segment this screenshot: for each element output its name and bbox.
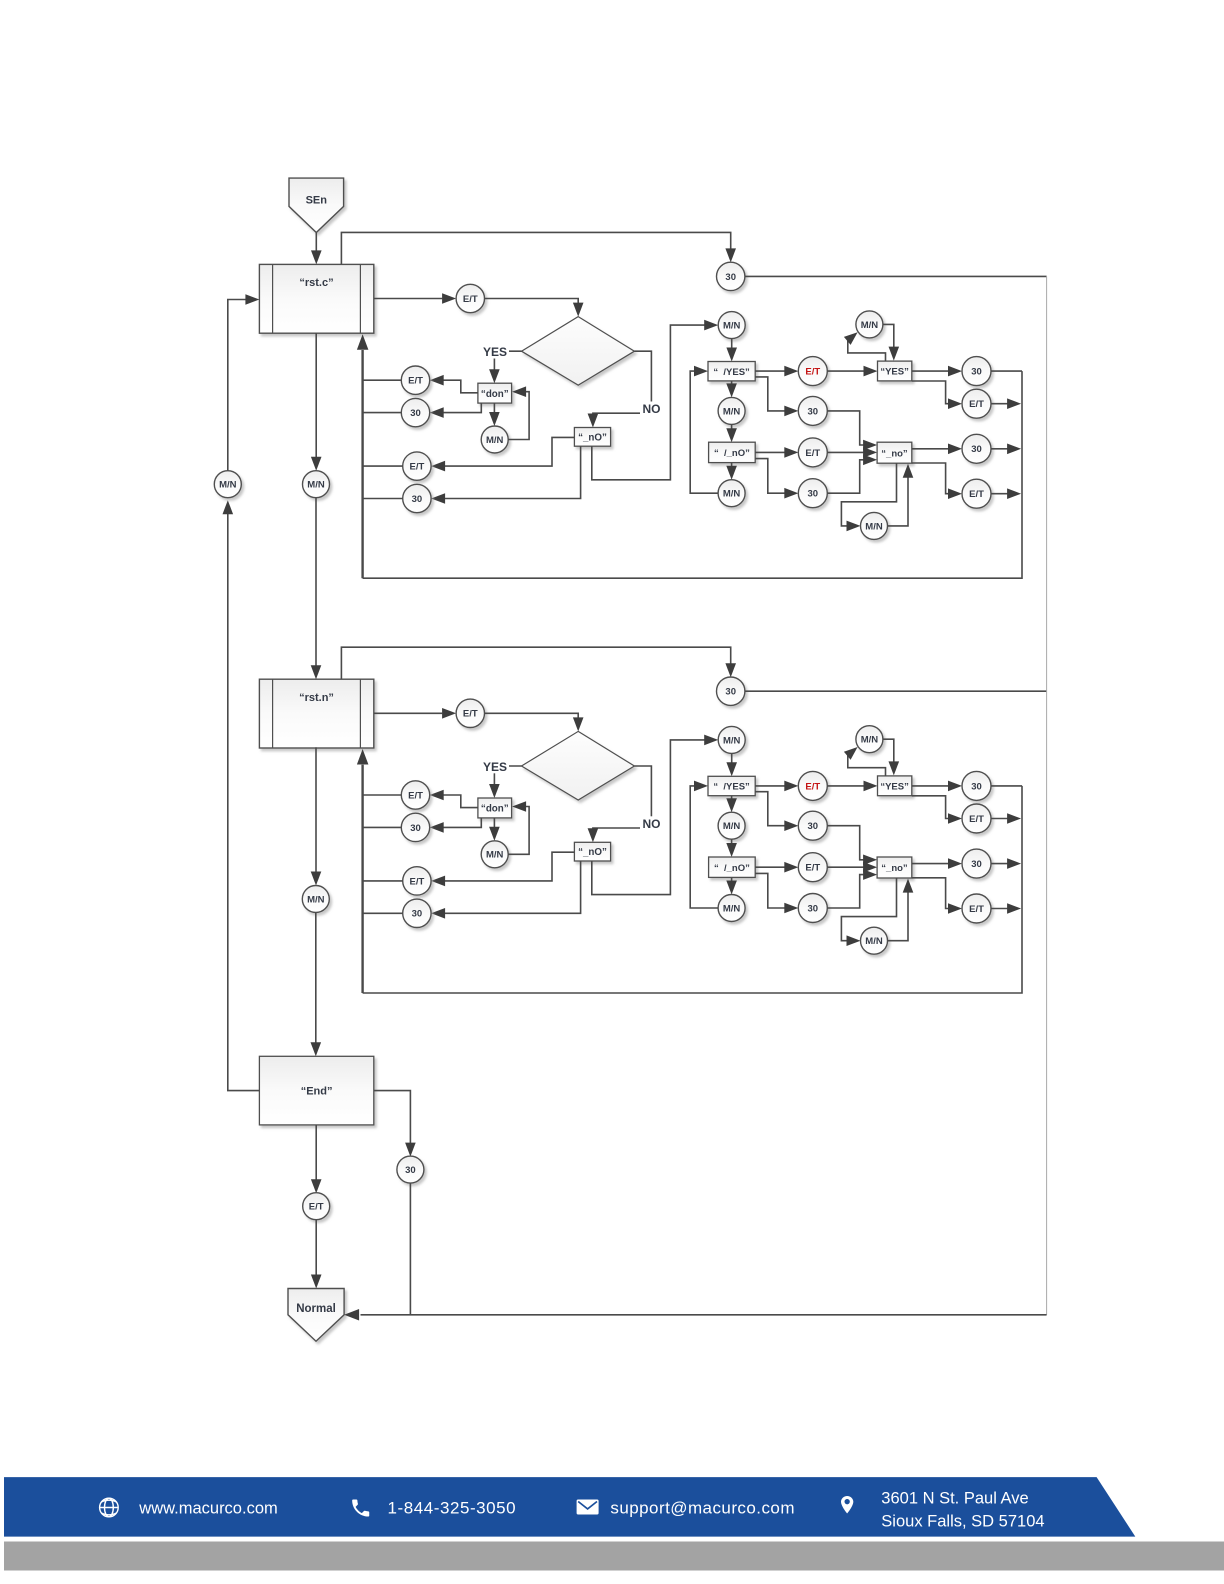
node 30 r2 s1 (962, 434, 991, 463)
wire s1 _nO to M/N-a (592, 320, 718, 480)
node 30 l2 s2 (403, 899, 431, 927)
wire 30-e down (409, 1183, 411, 1315)
node 30 b s2 (798, 894, 827, 923)
icon globe (100, 1498, 119, 1517)
wire s1 E/T-mr to _no (827, 447, 877, 458)
node 30 top s2 (717, 677, 745, 705)
node E/T out s2 (456, 699, 484, 727)
node M/N tr s2 (856, 726, 883, 753)
wire s2 _nO to M/N-a (592, 735, 718, 895)
icon phone (352, 1499, 369, 1516)
svg-text:30: 30 (808, 489, 819, 500)
svg-text:NO: NO (643, 402, 661, 416)
wire s1 /_nO to 30-b (755, 459, 798, 499)
wire s1 M/N-tr to YES-box (883, 324, 899, 360)
label YES s2 (481, 759, 509, 774)
icon location pin (841, 1496, 853, 1514)
wire s1 rst-top to 30 (341, 232, 736, 264)
footer text email (610, 1499, 795, 1518)
wire s2 YES-box to 30-r1 (912, 781, 962, 792)
node M/N m s2 (718, 812, 745, 839)
wire s2 30-l2 stub (363, 912, 403, 914)
wire s2 30-b to _no (827, 869, 877, 908)
svg-text:M/N: M/N (723, 489, 741, 500)
wire s1 30-r2 out (991, 444, 1021, 455)
wire s2 E/T-l1 stub (363, 794, 402, 796)
svg-text:30: 30 (808, 406, 819, 417)
wire s2 M/N-a to /YES (726, 753, 737, 776)
svg-text:“ /YES”: “ /YES” (713, 367, 750, 378)
svg-text:M/N: M/N (723, 903, 741, 914)
svg-text:“ /_nO”: “ /_nO” (714, 863, 750, 874)
wire s2 _no to 30-r2 (912, 858, 962, 869)
display don s1 (478, 383, 512, 403)
decision diamond s2 (522, 731, 635, 800)
svg-text:3601 N St. Paul Ave: 3601 N St. Paul Ave (881, 1490, 1028, 1508)
wire s1 _nO to 30-l2 (431, 446, 580, 504)
wire s2 collector rail (363, 786, 1022, 993)
svg-text:YES: YES (483, 345, 507, 359)
wire right rail down (1046, 276, 1048, 1314)
svg-text:E/T: E/T (969, 489, 984, 500)
wire s1 E/T-r1 out (991, 398, 1021, 409)
wire rst.n down to M/N-v2 (311, 747, 322, 885)
node 30 r1 s2 (962, 771, 991, 800)
wire s1 E/T to decision (485, 299, 584, 317)
node M/N tr s1 (856, 311, 883, 338)
wire s2 M/N-tr to YES-box (883, 739, 899, 775)
svg-text:“rst.c”: “rst.c” (299, 277, 333, 289)
connector SEn (289, 178, 344, 232)
svg-text:E/T: E/T (969, 904, 984, 915)
svg-text:E/T: E/T (463, 294, 478, 305)
svg-text:E/T: E/T (969, 814, 984, 825)
wire s1 /YES to M/N-m (726, 381, 737, 398)
wire s1 YES-box to 30-r1 (912, 366, 962, 377)
wire s1 30-l2 stub (363, 498, 403, 500)
connector Normal (288, 1289, 344, 1342)
footer text website (138, 1500, 277, 1518)
node M/N left (214, 471, 241, 498)
svg-text:M/N: M/N (723, 321, 741, 332)
svg-text:NO: NO (643, 817, 661, 831)
footer blue banner (4, 1477, 1135, 1537)
wire s1 30-r1 out (991, 370, 1022, 372)
wire s2 M/N-m to /_nO (726, 839, 737, 857)
svg-text:30: 30 (971, 367, 982, 378)
wire s2 rst to E/T (374, 708, 456, 719)
wire s2 NO branch (588, 766, 652, 842)
wire M/N-v1 down to rst.n (311, 498, 322, 680)
svg-text:E/T: E/T (410, 462, 425, 473)
node M/N br s2 (861, 927, 888, 954)
node E/T mr s2 (798, 853, 827, 882)
wire s2 feedback to rst bottom (357, 749, 369, 993)
display _nO s2 (574, 842, 610, 861)
node 30 top s1 (717, 262, 745, 290)
svg-text:E/T: E/T (805, 863, 820, 874)
svg-text:M/N: M/N (861, 320, 879, 331)
node E/T l1 s1 (401, 366, 429, 394)
svg-text:“End”: “End” (301, 1086, 333, 1098)
wire s1 YES-box to E/T-r1 (912, 381, 962, 409)
svg-text:30: 30 (410, 823, 421, 834)
svg-text:support@macurco.com: support@macurco.com (610, 1499, 795, 1518)
display /YES s2 (708, 776, 755, 795)
wire s1 M/N-m to /_nO (726, 424, 737, 442)
node E/T mr s1 (798, 438, 827, 467)
wire s2 /_nO to E/T-mr (755, 862, 798, 873)
node E/T r1 s1 (962, 389, 991, 418)
svg-text:30: 30 (412, 909, 423, 920)
display /_nO s2 (709, 857, 756, 877)
node M/N v1 (303, 471, 330, 498)
display _no s1 (877, 442, 912, 463)
svg-text:M/N: M/N (723, 821, 741, 832)
wire s1 _no to 30-r2 (912, 444, 962, 455)
wire s2 /YES to E/T-red (755, 781, 798, 792)
svg-text:M/N: M/N (723, 406, 741, 417)
node E/T r1 s2 (962, 804, 991, 833)
wire s1 YES-box to M/N-tr (844, 332, 886, 361)
svg-text:E/T: E/T (309, 1202, 324, 1213)
svg-text:E/T: E/T (410, 876, 425, 887)
svg-text:“YES”: “YES” (880, 367, 909, 378)
svg-text:“rst.n”: “rst.n” (299, 692, 334, 704)
icon envelope (577, 1500, 599, 1515)
wire s1 30-b to _no (827, 455, 877, 494)
label YES s1 (481, 345, 509, 360)
svg-text:30: 30 (808, 821, 819, 832)
wire s2 30-top to right rail (745, 690, 1047, 692)
svg-text:30: 30 (808, 903, 819, 914)
svg-text:E/T: E/T (408, 790, 423, 801)
wire s2 /YES to M/N-m (726, 796, 737, 813)
node M/N m s1 (718, 397, 745, 424)
node M/N br s1 (861, 512, 888, 539)
svg-text:30: 30 (412, 494, 423, 505)
node 30 e (397, 1156, 424, 1183)
wire s2 E/T-mr to _no (827, 862, 877, 873)
wire End to 30-e (374, 1091, 416, 1157)
svg-text:30: 30 (725, 272, 736, 283)
label NO s2 (640, 816, 663, 831)
wire s2 /_nO to M/N-b (726, 877, 737, 894)
svg-text:M/N: M/N (865, 936, 883, 947)
wire s2 YES-box to E/T-r1 (912, 796, 962, 824)
decision diamond s1 (522, 317, 635, 386)
wire s2 YES-box to M/N-tr (844, 747, 886, 776)
wire s2 30-r1 out (991, 785, 1022, 787)
svg-text:M/N: M/N (723, 735, 741, 746)
svg-text:M/N: M/N (865, 521, 883, 532)
svg-text:M/N: M/N (486, 850, 504, 861)
wire s2 M/N to don (508, 801, 529, 854)
svg-text:www.macurco.com: www.macurco.com (138, 1500, 277, 1518)
wire s2 don to 30-l1 (430, 818, 482, 833)
svg-text:30: 30 (725, 687, 736, 698)
wire s2 don to M/N (489, 818, 500, 841)
wire s1 collector rail (363, 371, 1022, 578)
wire s1 M/N-br to _no (888, 464, 914, 526)
svg-text:E/T: E/T (969, 399, 984, 410)
node M/N a s1 (718, 312, 745, 339)
wire s1 E/T-l1 stub (363, 379, 402, 381)
wire s1 M/N-a to /YES (726, 339, 737, 362)
wire rst.c down to M/N-v1 (311, 333, 322, 471)
svg-text:30: 30 (971, 444, 982, 455)
svg-text:M/N: M/N (486, 435, 504, 446)
node M/N under don s2 (481, 841, 508, 868)
svg-text:“_nO”: “_nO” (578, 847, 607, 858)
node E/T red s1 (798, 357, 827, 386)
svg-text:SEn: SEn (306, 195, 328, 207)
svg-text:“_no”: “_no” (881, 863, 908, 874)
wire s1 E/T-l2 stub (363, 465, 403, 467)
display /_nO s1 (709, 442, 756, 462)
display YES-box s1 (878, 361, 912, 381)
svg-text:“ /YES”: “ /YES” (713, 782, 750, 793)
wire s1 don to E/T-l1 (430, 375, 478, 393)
wire s2 30-m to _no (827, 826, 877, 865)
svg-text:30: 30 (410, 408, 421, 419)
wire s1 _nO to E/T-l2 (431, 437, 574, 471)
svg-text:M/N: M/N (307, 480, 325, 491)
node E/T out s1 (456, 284, 484, 312)
svg-text:E/T: E/T (805, 448, 820, 459)
footer text address line2 (881, 1513, 1044, 1531)
wire s1 30-m to _no (827, 411, 877, 450)
wire s2 /YES to 30-m (755, 792, 798, 831)
svg-text:Sioux Falls, SD 57104: Sioux Falls, SD 57104 (881, 1513, 1044, 1531)
svg-text:“don”: “don” (481, 804, 509, 815)
svg-text:E/T: E/T (463, 709, 478, 720)
wire s1 YES branch (489, 351, 521, 383)
wire s2 don to E/T-l1 (430, 790, 478, 808)
wire s1 E/T-red to YES-box (827, 366, 877, 377)
wire s1 E/T-r2 out (991, 488, 1021, 499)
wire s1 NO branch (588, 351, 652, 427)
wire rail to Normal (344, 1309, 1047, 1321)
wire s2 _nO to E/T-l2 (431, 852, 574, 886)
svg-text:M/N: M/N (219, 480, 237, 491)
wire s1 M/N to don (508, 386, 529, 439)
svg-text:“don”: “don” (481, 389, 509, 400)
svg-text:“ /_nO”: “ /_nO” (714, 448, 750, 459)
wire s2 E/T-l2 stub (363, 880, 403, 882)
node M/N a s2 (718, 726, 745, 753)
process &#8220;rst.c&#8221; s1 (259, 264, 373, 333)
wire s1 _no to M/N-br (841, 463, 896, 531)
svg-text:“YES”: “YES” (880, 781, 909, 792)
node M/N b s2 (718, 895, 745, 922)
node 30 l1 s2 (401, 813, 429, 841)
wire M/N-left to rst.c (228, 294, 260, 471)
node E/T r2 s2 (962, 894, 991, 923)
svg-text:“_nO”: “_nO” (578, 433, 607, 444)
wire s2 E/T-r1 out (991, 813, 1021, 824)
node E/T l2 s2 (403, 867, 431, 895)
wire s2 E/T-red to YES-box (827, 781, 877, 792)
wire s2 30-l1 stub (363, 826, 402, 828)
wire End to E/T-e (311, 1125, 322, 1193)
wire s1 feedback to rst bottom (357, 334, 369, 578)
wire s1 /YES to E/T-red (755, 366, 798, 377)
wire s1 M/N-b to /YES (690, 366, 718, 493)
node E/T e (303, 1193, 330, 1220)
svg-text:E/T: E/T (805, 781, 820, 792)
wire s2 E/T to decision (485, 713, 584, 731)
svg-text:YES: YES (483, 760, 507, 774)
wire s1 _no to E/T-r2 (912, 463, 962, 499)
node E/T red s2 (798, 771, 827, 800)
footer gray bar (4, 1542, 1224, 1571)
svg-text:“_no”: “_no” (881, 448, 908, 459)
node 30 m s1 (798, 396, 827, 425)
svg-text:Normal: Normal (296, 1303, 336, 1315)
wire s1 don to 30-l1 (430, 403, 482, 418)
footer text phone (388, 1499, 517, 1518)
process &#8220;rst.n&#8221; s2 (259, 679, 373, 748)
wire E/T-e to Normal (311, 1220, 322, 1289)
display _no s2 (877, 857, 912, 878)
wire s2 /_nO to 30-b (755, 873, 798, 913)
svg-text:30: 30 (971, 781, 982, 792)
svg-text:30: 30 (405, 1165, 416, 1176)
wire s2 YES branch (489, 766, 521, 798)
wire s2 30-r2 out (991, 858, 1021, 869)
wire s2 rst-top to 30 (341, 647, 736, 679)
wire s2 _no to M/N-br (841, 878, 896, 946)
footer text address line1 (881, 1490, 1028, 1508)
svg-text:1-844-325-3050: 1-844-325-3050 (388, 1499, 517, 1518)
wire s2 M/N-b to /YES (690, 781, 718, 908)
wire End left loop (223, 500, 260, 1090)
node M/N v2 (302, 886, 329, 913)
node 30 m s2 (798, 811, 827, 840)
node M/N under don s1 (481, 426, 508, 453)
wire s2 M/N-br to _no (888, 879, 914, 941)
display /YES s1 (708, 362, 755, 381)
node 30 r1 s1 (962, 357, 991, 386)
svg-text:M/N: M/N (307, 894, 325, 905)
display _nO s1 (574, 428, 610, 447)
node 30 b s1 (798, 479, 827, 508)
wire s1 don to M/N (489, 403, 500, 426)
node 30 l1 s1 (401, 398, 429, 426)
wire s1 /_nO to E/T-mr (755, 447, 798, 458)
node E/T l2 s1 (403, 452, 431, 480)
wire s2 _no to E/T-r2 (912, 878, 962, 914)
svg-text:M/N: M/N (861, 735, 879, 746)
svg-text:E/T: E/T (408, 376, 423, 387)
wire M/N-v2 down to End (311, 913, 322, 1057)
wire s1 rst to E/T (374, 293, 456, 304)
node E/T r2 s1 (962, 479, 991, 508)
node M/N b s1 (718, 480, 745, 507)
node 30 l2 s1 (403, 484, 431, 512)
process End (259, 1056, 373, 1125)
svg-text:30: 30 (971, 859, 982, 870)
display don s2 (478, 798, 512, 818)
label NO s1 (640, 402, 663, 417)
wire s1 /YES to 30-m (755, 377, 798, 416)
display YES-box s2 (878, 776, 912, 796)
wire s2 _nO to 30-l2 (431, 861, 580, 919)
node 30 r2 s2 (962, 849, 991, 878)
svg-text:E/T: E/T (805, 367, 820, 378)
wire s2 E/T-r2 out (991, 903, 1021, 914)
wire s1 30-l1 stub (363, 412, 402, 414)
wire s1 /_nO to M/N-b (726, 463, 737, 480)
wire s1 30-top to right rail (745, 275, 1047, 277)
node E/T l1 s2 (401, 781, 429, 809)
wire SEn to rst.c (311, 233, 322, 265)
